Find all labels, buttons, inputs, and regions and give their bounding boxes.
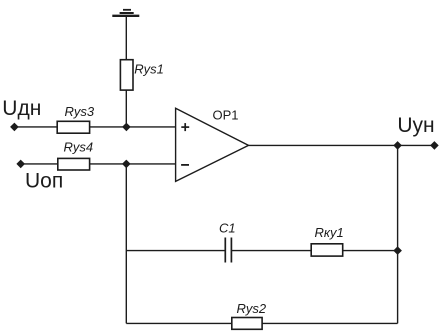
resistor Rку1: [311, 244, 343, 256]
wire Rys4 to op-amp -input: [90, 163, 176, 165]
wire op-amp output to Uун: [249, 144, 435, 146]
resistor Rys1: [120, 60, 133, 90]
svg-text:C1: C1: [219, 220, 236, 235]
wire Uоп to Rys4: [21, 163, 58, 165]
wire C1 to Rку1: [231, 250, 311, 252]
wire Rку1 to right vertical: [343, 250, 398, 252]
svg-text:Uдн: Uдн: [2, 97, 41, 120]
capacitor C1: [225, 238, 231, 263]
node output junction: [394, 142, 401, 149]
wire Rys1 to +input junction: [125, 90, 127, 127]
svg-text:OP1: OP1: [213, 108, 239, 123]
svg-text:Rys1: Rys1: [134, 62, 164, 77]
node Uун terminal: [431, 142, 438, 149]
node junction +input / Rys1: [123, 123, 130, 130]
op-amp OP1: [176, 108, 249, 181]
wire Uдн to Rys3: [14, 126, 57, 128]
svg-text:Uун: Uун: [397, 114, 434, 137]
wire bottom left segment: [126, 322, 232, 324]
wire -input junction down to bottom feedback: [125, 164, 127, 324]
resistor Rys2: [232, 318, 262, 330]
node junction -input / feedback: [123, 160, 130, 167]
pin + symbol: [181, 123, 189, 131]
ground: [112, 10, 139, 16]
node Uдн: [11, 123, 18, 130]
svg-text:Rys4: Rys4: [64, 139, 94, 154]
wire bottom right segment: [262, 322, 398, 324]
resistor Rys4: [58, 158, 90, 170]
node Uоп: [17, 160, 24, 167]
svg-text:Uоп: Uоп: [25, 170, 63, 193]
svg-text:Rку1: Rку1: [315, 225, 344, 240]
wire left vertical to C1: [126, 250, 225, 252]
wire ground to Rys1: [125, 16, 127, 60]
svg-text:Rys2: Rys2: [237, 301, 267, 316]
resistor Rys3: [57, 121, 89, 133]
pin - symbol: [181, 164, 189, 166]
wire output down right side: [397, 145, 399, 323]
svg-text:Rys3: Rys3: [65, 104, 95, 119]
wire Rys3 to op-amp +input: [90, 126, 176, 128]
node junction Rку1 / right side: [394, 247, 401, 254]
